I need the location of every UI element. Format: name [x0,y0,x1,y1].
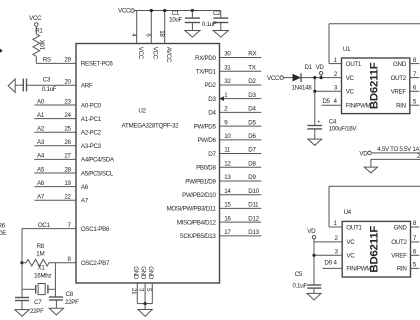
svg-text:C5: C5 [295,271,303,278]
svg-text:17: 17 [224,229,231,236]
node VCC (reset pullup) [29,15,42,27]
node VCC (motor supply) [267,75,283,82]
svg-text:20: 20 [64,79,71,86]
svg-text:C8: C8 [66,291,74,298]
svg-text:10E: 10E [0,230,6,237]
svg-text:VCC: VCC [152,47,159,60]
wire: MCU left pin 22 (A7) [34,194,88,205]
wire: MCU bottom GND pin 21 [130,266,139,303]
svg-text:RESET-PC6: RESET-PC6 [81,61,114,68]
ground (C8) [49,300,63,315]
wire: MCU right pin 10 net D6 [197,133,261,144]
svg-text:A5: A5 [37,166,45,173]
capacitor C3 0.1uF [23,77,56,93]
svg-text:PW/D6: PW/D6 [197,137,216,144]
wire: U1 right pin 6 [410,85,420,92]
svg-text:22PF: 22PF [65,299,79,306]
wire: GND pins tie [137,303,152,305]
svg-text:C2: C2 [213,10,221,17]
svg-text:D1: D1 [305,64,313,71]
svg-text:A3: A3 [37,139,45,146]
svg-text:VD: VD [316,64,325,71]
svg-text:ARF: ARF [81,83,93,90]
svg-text:D3: D3 [248,92,256,99]
svg-text:26: 26 [64,139,71,146]
svg-text:13: 13 [224,174,231,181]
resistor R8 1M [22,243,55,266]
svg-text:A4/PC4/SDA: A4/PC4/SDA [81,157,115,164]
wire: U4 VC pin 2 [314,235,342,242]
svg-text:TX: TX [248,64,255,71]
wire/net D5 to U1 pin 4 FIN/PWM [322,98,342,105]
junction marker on D3 pin [220,96,224,101]
svg-text:12: 12 [224,160,231,167]
svg-text:VC: VC [346,75,355,82]
svg-text:VCC: VCC [137,47,144,60]
svg-text:21: 21 [130,288,137,295]
wire: MCU right pin 30 net RX [195,51,261,62]
svg-text:VC: VC [346,89,355,96]
svg-text:28: 28 [64,166,71,173]
svg-text:X1: X1 [38,264,46,271]
svg-text:C7: C7 [34,299,42,306]
ground (C7) [15,301,29,317]
svg-text:10K: 10K [40,39,47,50]
svg-text:MISO/PB4/D12: MISO/PB4/D12 [177,219,217,226]
svg-text:1N4148: 1N4148 [292,84,313,91]
wire: U4 right pin 6 [411,249,420,256]
svg-text:D9: D9 [324,260,332,267]
wire: MCU left pin 29 (RESET-PC6) [36,57,113,68]
IC U2 ATMEGA328TQPF-32 body [76,44,220,284]
svg-text:GND: GND [132,266,139,280]
wire: MCU right pin 13 net D9 [185,174,261,185]
svg-text:0.1uF: 0.1uF [293,283,308,290]
svg-text:23: 23 [64,98,71,105]
svg-text:14: 14 [224,188,231,195]
wire: MCU right pin 15 net D11 [167,202,262,213]
svg-text:30: 30 [224,51,231,58]
svg-text:VREF: VREF [391,253,407,260]
wire: U4 right pin 5 [411,262,420,269]
svg-text:27: 27 [64,153,71,160]
IC U4 BD6211F body [342,209,410,277]
svg-text:24: 24 [64,112,71,119]
svg-text:D7: D7 [248,147,256,154]
wire: MCU left pin 28 (A5/PC5/SCL) [34,166,113,177]
svg-text:D6: D6 [248,133,256,140]
svg-text:ATMEGA328TQPF-32: ATMEGA328TQPF-32 [122,123,179,130]
svg-text:0.1uF: 0.1uF [42,86,57,93]
wire: MCU right pin 32 net D2 [204,78,261,89]
wire: U1 VC pin 3 [313,78,341,126]
wire: U4 pin 1 OUT1 loop [329,186,420,227]
svg-text:RIN: RIN [397,266,407,273]
wire: MCU right pin 17 net D13 [180,229,262,240]
svg-text:OUT2: OUT2 [391,239,407,246]
node VD (U4) [307,228,316,242]
svg-text:A1: A1 [37,112,45,119]
svg-text:U4: U4 [344,209,352,216]
svg-text:31: 31 [224,64,231,71]
capacitor C4 100uF/16V [307,118,357,132]
svg-text:32: 32 [224,78,231,85]
svg-text:VD: VD [359,150,368,157]
svg-text:R1: R1 [35,28,43,35]
svg-text:D9: D9 [248,174,256,181]
svg-text:OSC1-PB6: OSC1-PB6 [81,226,110,233]
svg-text:VCC: VCC [29,15,42,22]
wire: U4 right pin 7 [411,235,420,242]
svg-text:OC1: OC1 [38,222,51,229]
svg-text:D5: D5 [323,98,331,105]
svg-text:A1-PC1: A1-PC1 [81,116,102,123]
svg-text:D4: D4 [248,106,256,113]
wire: MCU bottom GND pin 5 [145,266,154,303]
wire: MCU top pin 6 (VCC) [144,11,158,60]
svg-text:D8: D8 [248,160,256,167]
svg-text:TX/PD1: TX/PD1 [196,69,217,76]
svg-text:D7: D7 [208,151,216,158]
svg-text:OUT1: OUT1 [346,61,362,68]
svg-text:16Mhz: 16Mhz [34,273,51,280]
resistor R1 10K [33,26,47,63]
svg-text:100uF/16V: 100uF/16V [329,125,358,132]
svg-text:GND: GND [140,266,147,280]
svg-text:AVCC: AVCC [165,47,172,63]
svg-text:VCC: VCC [118,8,131,15]
svg-text:16: 16 [224,215,231,222]
wire: MCU right pin 16 net D12 [177,215,261,226]
ground (C1) [185,23,200,38]
wire: VD supply [371,146,420,153]
svg-text:C3: C3 [43,77,51,84]
svg-text:RS: RS [43,57,51,64]
wire: OC1 vertical branch [21,229,23,298]
svg-text:18: 18 [158,30,165,37]
svg-text:D4: D4 [208,110,216,117]
wire: U1 right pin 8 [410,57,420,64]
wire: MCU right pin 1 net D3 [208,92,261,103]
svg-text:RIN: RIN [396,103,406,110]
off-sheet arrow (left edge) [0,48,3,53]
capacitor C2 0.1uF [202,10,228,28]
svg-text:D12: D12 [248,215,259,222]
svg-text:A0-PC0: A0-PC0 [81,102,102,109]
crystal X1 16Mhz [22,264,55,294]
capacitor C1 10uF [169,10,200,23]
node VCC (top rail terminal) [118,8,134,15]
svg-text:D11: D11 [248,202,259,209]
wire: MCU left pin 27 (A4/PC4/SDA) [34,153,114,164]
wire: MCU right pin 31 net TX [196,64,262,75]
svg-text:22PF: 22PF [30,308,44,315]
junction [144,302,147,305]
svg-text:25: 25 [64,126,71,133]
svg-text:RX/PD0: RX/PD0 [195,55,216,62]
wire: MCU left pin 8 (OSC2-PB7) [55,256,110,267]
wire: MCU left pin 19 (A6) [34,180,88,191]
svg-text:A4: A4 [37,153,45,160]
svg-text:R8: R8 [37,243,45,250]
wire: MCU left pin 26 (A3-PC3) [34,139,101,150]
wire: MCU right pin 9 net D5 [194,119,262,130]
wire: U1 right pin 7 [410,71,420,78]
svg-text:PD2: PD2 [204,82,216,89]
svg-text:0.1uF: 0.1uF [202,21,217,28]
wire: OSC2 branch vertical [54,263,56,297]
svg-text:RX: RX [248,51,256,58]
svg-text:A5/PC5/SCL: A5/PC5/SCL [81,170,114,177]
capacitor C8 22PF [49,291,79,306]
svg-text:GND: GND [393,61,407,68]
wire: MCU bottom GND pin 3 [138,266,147,303]
junction dots on VCC rail [150,9,194,12]
ground (C5) [307,288,321,300]
svg-text:MOSI/PW/PB3/D11: MOSI/PW/PB3/D11 [167,206,217,213]
svg-text:VC: VC [346,253,355,260]
wire: U1 pin 1 OUT1 loop [329,24,420,64]
svg-text:VCC: VCC [267,75,280,82]
svg-text:29: 29 [64,57,71,64]
svg-text:22: 22 [64,194,71,201]
wire: MCU top pin 18 (AVCC) [158,11,172,64]
svg-text:A0: A0 [37,98,45,105]
svg-text:VD: VD [307,228,316,235]
svg-text:PW/PB1/D9: PW/PB1/D9 [185,178,216,185]
svg-text:4.5V TO 5.5V 1A: 4.5V TO 5.5V 1A [377,146,420,153]
svg-text:OUT1: OUT1 [346,224,362,231]
IC U1 BD6211F body [342,46,410,114]
wire: MCU left pin 25 (A2-PC2) [34,126,101,137]
svg-text:D13: D13 [248,229,259,236]
svg-text:A2: A2 [37,126,45,133]
resistor R6 label (cropped at edge) [0,222,6,237]
svg-text:+: + [317,120,320,126]
ground (C2) [213,23,228,38]
svg-text:1M: 1M [36,250,44,257]
svg-text:U1: U1 [343,46,351,53]
ground (MCU) [138,304,152,317]
svg-text:D3: D3 [208,96,216,103]
ground (supply return) [364,167,377,173]
svg-text:OUT2: OUT2 [391,75,407,82]
svg-text:VREF: VREF [391,89,407,96]
svg-text:15: 15 [224,202,231,209]
wire: MCU top pin 4 (VCC) [130,11,144,60]
wire: MCU right pin 11 net D7 [208,147,261,158]
wire: U4 VC pin 3 [312,242,342,285]
port arrow (AREF filter) [8,79,15,92]
svg-text:FIN/PWM: FIN/PWM [346,103,371,110]
wire: U4 right pin 8 [411,220,420,227]
svg-text:D5: D5 [248,119,256,126]
svg-text:10: 10 [224,133,231,140]
wire: MCU left pin 7 (OSC1-PB6) [22,222,110,233]
node VD (U1) [316,64,325,78]
svg-text:BD6211F: BD6211F [369,62,381,109]
junction [312,254,315,257]
svg-text:A6: A6 [37,180,45,187]
wire: MCU left pin 24 (A1-PC1) [34,112,101,123]
svg-text:A7: A7 [37,194,45,201]
svg-text:A6: A6 [81,184,89,191]
svg-text:OSC2-PB7: OSC2-PB7 [81,260,110,267]
wire: U1 right pin 5 [410,98,420,105]
wire [15,84,23,86]
svg-text:PW/PD5: PW/PD5 [194,123,217,130]
capacitor C5 0.1uF [293,271,322,289]
svg-text:SCK/PB5/D13: SCK/PB5/D13 [180,233,217,240]
junction dots (VC feed) [313,76,316,79]
svg-text:U2: U2 [138,108,146,115]
svg-text:PW/PB2/D10: PW/PB2/D10 [182,192,216,199]
svg-text:PB0/D8: PB0/D8 [196,165,216,172]
junction (R8 / OSC1 branch) [20,261,23,264]
svg-text:GND: GND [147,266,154,280]
capacitor C7 22PF [15,298,44,315]
svg-text:D2: D2 [248,78,256,85]
svg-text:A7: A7 [81,198,89,205]
svg-text:FIN/PWM: FIN/PWM [346,266,371,273]
svg-text:A2-PC2: A2-PC2 [81,130,102,137]
wire: MCU right pin 2 net D4 [208,106,261,117]
wire: MCU right pin 12 net D8 [196,160,261,171]
svg-text:GND: GND [394,224,408,231]
diode D1 1N4148 [284,64,342,91]
node VD (power entry) [359,150,371,157]
wire: VCC top rail [134,10,221,12]
svg-text:10uF: 10uF [169,17,182,24]
wire/net D9 to U4 pin 4 FIN/PWM [323,260,343,269]
wire: supply return [371,153,420,167]
svg-text:11: 11 [224,147,231,154]
svg-text:VC: VC [346,239,355,246]
ground (C4) [308,129,322,146]
svg-text:D10: D10 [248,188,259,195]
wire: MCU right pin 14 net D10 [182,188,261,199]
wire: MCU left pin 23 (A0-PC0) [34,98,101,109]
junction [313,90,316,93]
svg-text:19: 19 [64,180,71,187]
wire: MCU left pin 20 (ARF) [27,79,93,90]
svg-text:A3-PC3: A3-PC3 [81,143,102,150]
